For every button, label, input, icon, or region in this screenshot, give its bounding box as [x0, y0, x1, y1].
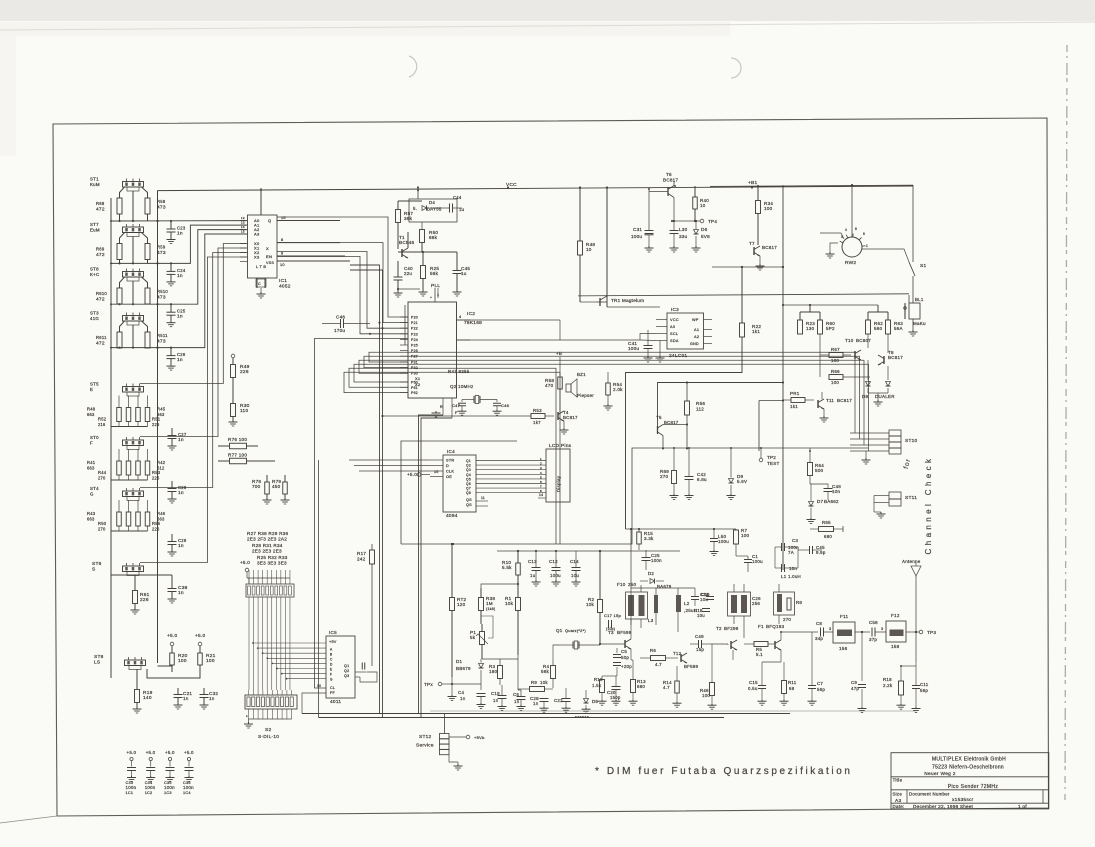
- svg-text:110: 110: [240, 408, 248, 414]
- svg-text:SDA: SDA: [670, 339, 679, 343]
- F1 emitter down: [780, 650, 782, 662]
- svg-text:WP: WP: [692, 318, 699, 322]
- wire trimmer mid down: [132, 325, 134, 348]
- svg-text:OE: OE: [446, 475, 452, 479]
- svg-text:R50: R50: [98, 521, 107, 526]
- svg-text:226: 226: [152, 476, 160, 481]
- svg-text:9: 9: [281, 252, 283, 256]
- wire IC1 pin8 to IC2: [277, 243, 408, 323]
- wire IC1 X2 down to trimmer ST4: [140, 253, 247, 488]
- IC1 left pin leads: [240, 220, 248, 222]
- trimmer ST5 group: [123, 387, 144, 393]
- svg-text:ST11: ST11: [905, 495, 917, 501]
- svg-text:33u: 33u: [679, 234, 688, 239]
- svg-text:Pico Sender 72MHz: Pico Sender 72MHz: [948, 784, 999, 790]
- resistor R21 100: [198, 653, 203, 665]
- trimmer ST1 group: [123, 182, 144, 188]
- svg-text:0.5u: 0.5u: [748, 686, 758, 691]
- svg-text:T2: T2: [716, 626, 722, 631]
- capacitor C49 15p: [698, 640, 700, 648]
- svg-text:G: G: [330, 678, 333, 682]
- svg-text:680: 680: [637, 684, 645, 689]
- svg-text:10: 10: [280, 263, 285, 267]
- resistor R19 140: [135, 690, 140, 703]
- wire ST8 row: [158, 666, 173, 672]
- ST12 wires: [444, 714, 446, 734]
- svg-text:C3: C3: [792, 538, 798, 543]
- column resistor R49 226 with feed: [231, 354, 235, 358]
- svg-text:+5.0: +5.0: [184, 750, 194, 755]
- svg-text:C31: C31: [633, 227, 642, 232]
- svg-text:Q2: Q2: [466, 464, 471, 468]
- svg-text:R8: R8: [796, 600, 802, 605]
- resistor R79 450: [283, 482, 288, 494]
- svg-text:158: 158: [891, 644, 900, 649]
- svg-text:C6: C6: [513, 692, 519, 697]
- svg-text:1n: 1n: [183, 696, 189, 701]
- svg-text:226: 226: [152, 527, 160, 532]
- svg-text:56k: 56k: [541, 669, 550, 674]
- svg-text:Neuer Weg 2: Neuer Weg 2: [924, 771, 956, 777]
- svg-text:156: 156: [839, 646, 848, 651]
- capacitor C38: [168, 588, 177, 590]
- svg-text:Title: Title: [893, 778, 903, 783]
- svg-text:10n: 10n: [789, 566, 797, 571]
- svg-text:C4: C4: [458, 690, 464, 695]
- resistor pair under ST8: [117, 288, 122, 304]
- svg-text:R47 8355: R47 8355: [448, 369, 470, 374]
- svg-text:C: C: [258, 282, 261, 286]
- resistor R61 226: [133, 591, 138, 604]
- svg-text:7: 7: [540, 485, 542, 489]
- transistor T2 BF299: [730, 641, 732, 649]
- wire VCC down long: [606, 188, 608, 297]
- svg-text:C24: C24: [177, 268, 186, 273]
- svg-text:4052: 4052: [279, 284, 291, 290]
- capacitor C15 0.5u: [758, 685, 766, 687]
- svg-text:1: 1: [437, 293, 439, 297]
- T6 output node wire down: [673, 198, 675, 222]
- svg-text:472: 472: [96, 207, 105, 213]
- svg-text:C19: C19: [491, 691, 500, 696]
- svg-text:100: 100: [702, 693, 710, 698]
- resistor R20 100: [170, 653, 175, 665]
- svg-text:F: F: [90, 441, 93, 446]
- svg-text:L2: L2: [684, 601, 690, 606]
- IC IC4 4094 body: [443, 455, 476, 512]
- svg-text:680: 680: [824, 534, 832, 539]
- svg-text:100u: 100u: [628, 346, 639, 351]
- resistor quad under ST0: [117, 461, 122, 475]
- ST11 wires: [874, 495, 889, 497]
- svg-text:7A: 7A: [788, 550, 794, 555]
- svg-text:ST4: ST4: [90, 486, 99, 491]
- svg-text:R53: R53: [533, 408, 542, 413]
- svg-text:4: 4: [845, 228, 847, 232]
- svg-text:Q4: Q4: [466, 473, 471, 477]
- svg-text:100: 100: [741, 533, 750, 538]
- svg-text:5P2: 5P2: [826, 326, 835, 331]
- svg-text:BZ1: BZ1: [577, 372, 586, 377]
- svg-text:BF599: BF599: [617, 630, 632, 635]
- svg-text:MaKu: MaKu: [913, 321, 926, 326]
- svg-text:C15: C15: [749, 680, 758, 685]
- IC1 right pin leads with wires: [277, 220, 340, 222]
- svg-text:QS: QS: [466, 498, 472, 502]
- svg-text:R9: R9: [531, 680, 537, 685]
- svg-text:VCC: VCC: [670, 318, 679, 322]
- wire IC1 X1 down to trimmer ST0: [140, 248, 247, 437]
- resistor R10 5.5k: [516, 563, 521, 575]
- IC1 top lead from VCC rail: [260, 188, 262, 215]
- svg-text:C9: C9: [851, 680, 857, 685]
- capacitor C23 1n: [167, 228, 176, 230]
- preset resistor PR1: [791, 398, 805, 403]
- svg-text:100: 100: [831, 380, 839, 385]
- resistor R48 10: [578, 241, 583, 255]
- svg-text:1n: 1n: [178, 543, 184, 549]
- svg-text:R52: R52: [98, 417, 107, 422]
- wire T2 base node: [710, 643, 728, 645]
- svg-text:D2: D2: [648, 571, 654, 576]
- capacitor C41 100u: [644, 345, 653, 347]
- resistor R13 680: [631, 680, 636, 693]
- svg-text:1n: 1n: [177, 314, 183, 320]
- S2 top pin numbers: [248, 690, 250, 695]
- transistor T7 BC817: [753, 247, 755, 255]
- wire trimmer mid down: [132, 191, 134, 221]
- wire pair down from PLL area: [350, 265, 380, 714]
- svg-text:P20: P20: [411, 316, 418, 320]
- long service horizontal wires: [302, 713, 790, 715]
- svg-text:KuM: KuM: [90, 182, 100, 187]
- svg-text:A1: A1: [694, 328, 699, 332]
- transistor T5 BC817: [657, 426, 659, 434]
- svg-text:1n: 1n: [177, 231, 183, 237]
- resistor R6 4.7 horizontal: [651, 656, 666, 661]
- IC IC2 78K168 body: [408, 302, 457, 398]
- svg-text:1: 1: [246, 714, 248, 718]
- svg-text:F: F: [330, 673, 332, 677]
- svg-text:Q7: Q7: [466, 487, 471, 491]
- capacitor C29: [168, 541, 177, 543]
- svg-text:226: 226: [140, 597, 149, 603]
- svg-text:50p: 50p: [621, 655, 629, 660]
- svg-text:Q2 10MHz: Q2 10MHz: [450, 384, 474, 389]
- RF output line: [781, 631, 818, 633]
- svg-text:TR1: TR1: [611, 298, 621, 303]
- title block outline: [891, 753, 1049, 809]
- svg-text:250: 250: [628, 582, 637, 587]
- svg-text:P21: P21: [411, 321, 418, 325]
- svg-text:+20p: +20p: [621, 664, 632, 669]
- svg-text:P25: P25: [411, 344, 418, 348]
- LCD pins block: [546, 449, 570, 502]
- svg-text:14: 14: [241, 225, 245, 229]
- left rail wire 2: [157, 191, 159, 664]
- svg-text:1n: 1n: [177, 357, 183, 363]
- diode D7 BA682: [809, 502, 814, 507]
- svg-text:1.5k: 1.5k: [592, 683, 602, 688]
- svg-text:BL1: BL1: [915, 297, 924, 302]
- svg-text:F12: F12: [891, 613, 900, 618]
- resistor quad under ST5: [117, 408, 122, 422]
- svg-text:Piepser: Piepser: [577, 393, 594, 398]
- rail junction dots: [417, 186, 419, 188]
- svg-text:Q: Q: [268, 218, 271, 223]
- svg-text:x1535scr: x1535scr: [952, 797, 974, 803]
- T6 base wire: [649, 191, 668, 193]
- svg-text:Quarz(*2*): Quarz(*2*): [565, 628, 586, 633]
- svg-text:100n: 100n: [126, 785, 137, 790]
- svg-text:D8: D8: [862, 394, 868, 399]
- capacitor C16 10u: [691, 596, 699, 598]
- trimmer ST3 group: [123, 316, 144, 322]
- RW2 left wire to ground: [830, 243, 838, 252]
- svg-text:R610: R610: [96, 291, 107, 296]
- T3 collector up: [630, 620, 632, 639]
- svg-text:11: 11: [481, 496, 485, 500]
- wire supply row: [398, 251, 457, 253]
- svg-text:BC817: BC817: [888, 355, 903, 360]
- svg-text:C12: C12: [549, 559, 558, 564]
- svg-text:P22: P22: [411, 327, 418, 331]
- svg-text:D7: D7: [817, 499, 823, 504]
- svg-text:663: 663: [87, 517, 95, 522]
- svg-text:5V8: 5V8: [701, 234, 710, 239]
- resistor R69 270: [672, 471, 677, 484]
- capacitor C47: [458, 402, 466, 404]
- varactor diode D1 BB679: [479, 664, 484, 669]
- svg-text:663: 663: [87, 412, 95, 417]
- svg-text:1 of: 1 of: [1018, 804, 1027, 809]
- VCC rail wire: [158, 186, 914, 191]
- svg-text:473: 473: [157, 339, 166, 345]
- svg-text:FF: FF: [330, 691, 335, 695]
- svg-text:1n: 1n: [178, 490, 184, 496]
- svg-text:56k: 56k: [430, 271, 439, 276]
- svg-text:X3: X3: [254, 255, 260, 260]
- svg-text:6.8u: 6.8u: [697, 477, 707, 482]
- F1 collector line up: [780, 632, 782, 640]
- RW2 top feed wire: [851, 185, 853, 237]
- svg-text:13: 13: [241, 221, 245, 225]
- svg-text:December 22, 1998: December 22, 1998: [913, 804, 959, 809]
- T3 emitter down: [630, 649, 632, 660]
- svg-text:5: 5: [540, 475, 542, 479]
- RW2 right wire to S1: [862, 249, 909, 262]
- svg-text:TP2: TP2: [767, 455, 776, 460]
- TPx terminal: [438, 682, 442, 686]
- svg-text:S2: S2: [265, 727, 271, 733]
- resistor R53 1k horizontal: [531, 414, 545, 419]
- TP4 terminal: [700, 219, 704, 223]
- wires bundle to IC4: [349, 459, 430, 461]
- svg-text:BC817: BC817: [762, 245, 777, 250]
- single-bar transformer with resistor: [774, 592, 795, 615]
- svg-text:C: C: [330, 658, 333, 662]
- svg-text:IC3: IC3: [671, 307, 679, 312]
- resistor R54 2k0: [606, 383, 611, 395]
- RF right rail y448: [650, 447, 868, 449]
- svg-text:1: 1: [866, 244, 868, 248]
- svg-text:A3: A3: [254, 232, 260, 237]
- svg-text:+5.0: +5.0: [165, 750, 175, 755]
- LCD section enclosure box: [401, 441, 517, 544]
- terminal TP3: [919, 630, 923, 634]
- svg-text:A0: A0: [670, 325, 675, 329]
- svg-text:R28 R31 R34: R28 R31 R34: [252, 543, 283, 548]
- RW2 left elbow wire: [820, 233, 844, 239]
- svg-text:QS: QS: [466, 503, 472, 507]
- svg-text:Service: Service: [416, 743, 434, 749]
- svg-text:270: 270: [783, 617, 791, 622]
- IC3 left pin leads: [656, 319, 667, 321]
- capacitor C25 1n: [167, 311, 176, 313]
- svg-text:1n: 1n: [533, 701, 539, 706]
- svg-text:T10: T10: [845, 338, 854, 343]
- svg-text:R6: R6: [650, 648, 656, 653]
- resistor pair under ST7: [117, 244, 122, 260]
- capacitor C20 150p: [612, 686, 621, 688]
- svg-text:36k: 36k: [404, 216, 413, 221]
- svg-text:10u: 10u: [571, 573, 579, 578]
- capacitor C40 22u: [394, 276, 403, 278]
- wire row4 elbow to IC1 A3: [111, 234, 247, 348]
- RF supply rail y529: [626, 528, 737, 530]
- capacitor C28 1n: [540, 698, 549, 700]
- resistor R65 680 horizontal: [819, 527, 834, 532]
- svg-text:+5.0: +5.0: [127, 750, 137, 755]
- svg-text:120: 120: [457, 602, 466, 607]
- capacitor C3 100n stack: [781, 543, 783, 551]
- svg-text:10: 10: [700, 203, 706, 208]
- svg-text:TP4: TP4: [708, 219, 717, 224]
- trim pot P1 5k: [480, 632, 485, 645]
- connector ST12 Service: [440, 734, 450, 739]
- svg-text:R76 100: R76 100: [228, 437, 247, 442]
- svg-text:1C2: 1C2: [145, 791, 153, 795]
- wire D4 box to R50: [421, 222, 423, 230]
- svg-text:130: 130: [806, 326, 815, 331]
- resistor pair under ST1: [117, 198, 122, 214]
- svg-text:R18: R18: [883, 677, 892, 682]
- svg-text:100n: 100n: [651, 558, 662, 563]
- IC1 bottom leads with component: [256, 278, 258, 288]
- svg-text:LCD Pins: LCD Pins: [549, 443, 572, 449]
- terminal TP2 TEST: [759, 458, 763, 462]
- svg-text:D: D: [446, 464, 449, 468]
- trimmer ST8 group: [123, 272, 144, 278]
- svg-text:+5.0: +5.0: [195, 633, 206, 639]
- resistor R60 5P2: [818, 320, 823, 334]
- svg-text:TP3: TP3: [927, 630, 936, 635]
- svg-text:78K168: 78K168: [464, 320, 482, 326]
- svg-text:+B: +B: [556, 351, 562, 356]
- DIP switch S2 body: [245, 695, 297, 709]
- svg-text:150p: 150p: [610, 695, 621, 700]
- capacitor C27: [168, 435, 177, 437]
- capacitor C46b: [493, 402, 501, 404]
- IC4 bottom-right stub pins: [476, 500, 488, 502]
- ST10 wires from left: [850, 432, 889, 434]
- title block divider lines: [891, 776, 1049, 778]
- svg-text:4011: 4011: [330, 699, 341, 705]
- resistor R18 2.2k: [899, 681, 904, 695]
- wire trimmer mid down: [132, 281, 134, 304]
- capacitor C13 1u: [532, 567, 541, 569]
- resistor RT2 120: [450, 598, 455, 611]
- svg-text:BC546: BC546: [399, 240, 414, 245]
- IC5 right pins with cap: [355, 671, 366, 673]
- svg-text:Q3: Q3: [344, 674, 349, 678]
- svg-text:ST7: ST7: [90, 222, 99, 227]
- T5 collector wire: [663, 424, 687, 426]
- svg-text:3: 3: [829, 627, 831, 631]
- svg-text:E: E: [90, 387, 93, 392]
- capacitor C8 34p: [820, 628, 822, 637]
- svg-text:C5: C5: [621, 649, 627, 654]
- capacitor C22 1u: [562, 698, 571, 700]
- ground mid under IC2: [435, 411, 437, 413]
- bottom frame overshoot line: [0, 816, 57, 823]
- svg-text:C25: C25: [177, 309, 186, 314]
- svg-text:1u: 1u: [461, 271, 467, 276]
- svg-text:10k: 10k: [586, 602, 595, 607]
- speaker BZ1 Piepser: [566, 384, 571, 392]
- svg-text:T7: T7: [749, 241, 755, 246]
- svg-text:Q8: Q8: [466, 491, 471, 495]
- svg-text:MULTIPLEX Elektronik GmbH: MULTIPLEX Elektronik GmbH: [932, 757, 1006, 763]
- svg-text:3.3k: 3.3k: [644, 536, 654, 541]
- svg-text:Q2: Q2: [344, 669, 349, 673]
- transistor T1 BC546: [401, 249, 403, 257]
- svg-text:Sheet: Sheet: [960, 804, 974, 809]
- svg-text:R48: R48: [87, 407, 96, 412]
- svg-text:R43: R43: [87, 511, 96, 516]
- svg-text:T6: T6: [666, 172, 672, 177]
- svg-text:R27 R38 R29 R36: R27 R38 R29 R36: [247, 531, 288, 536]
- svg-text:15p: 15p: [696, 647, 704, 652]
- svg-text:ST10: ST10: [905, 438, 918, 444]
- scan streak artifact: [1065, 45, 1067, 800]
- svg-text:500: 500: [815, 468, 824, 473]
- svg-text:VSS: VSS: [266, 261, 274, 265]
- wire IC1 pin15 to IC2: [277, 217, 408, 317]
- transformer F26 256: [728, 592, 751, 616]
- wires IC4 to LCD block: [476, 460, 546, 462]
- svg-text:C44: C44: [453, 195, 462, 200]
- svg-text:1C1: 1C1: [126, 791, 134, 795]
- resistor R62 560: [866, 320, 871, 334]
- svg-text:Q5: Q5: [466, 477, 471, 481]
- svg-text:34p: 34p: [815, 636, 823, 641]
- svg-text:100u: 100u: [752, 559, 763, 564]
- svg-text:PLL: PLL: [431, 283, 440, 289]
- svg-text:8: 8: [855, 227, 857, 231]
- svg-text:C17 15p: C17 15p: [604, 613, 622, 618]
- svg-text:Q6: Q6: [466, 482, 471, 486]
- resistor R1 10k: [516, 598, 521, 611]
- svg-text:C47: C47: [452, 403, 461, 408]
- svg-text:R69: R69: [96, 247, 105, 252]
- long vertical bus x783: [782, 187, 784, 570]
- svg-text:Q1: Q1: [466, 459, 471, 463]
- svg-text:K+C: K+C: [90, 272, 99, 277]
- wire right section top rail: [712, 266, 783, 268]
- svg-text:P62: P62: [411, 391, 418, 395]
- svg-text:1: 1: [540, 457, 542, 461]
